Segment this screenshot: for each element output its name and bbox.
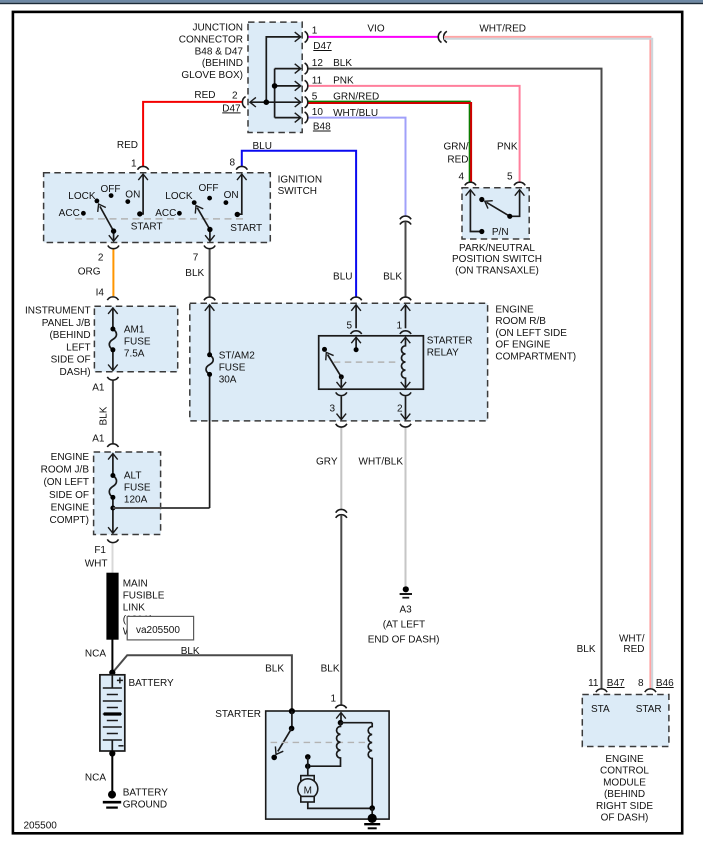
svg-text:120A: 120A <box>124 495 148 506</box>
wire pin 5 to contact <box>355 337 357 350</box>
wire VIO from junction pin 1 <box>308 36 439 38</box>
svg-text:FUSE: FUSE <box>124 483 151 494</box>
wire pivot 1 to pin 2 <box>113 231 115 241</box>
wire ignition ST1 contact line (pin 1) <box>140 174 143 214</box>
svg-text:2: 2 <box>397 404 403 415</box>
wire AM1 fuse feed <box>112 308 114 370</box>
main fusible link element <box>106 573 118 640</box>
svg-text:(BEHIND: (BEHIND <box>202 58 243 69</box>
svg-text:1: 1 <box>131 159 137 170</box>
svg-text:12: 12 <box>312 58 324 69</box>
wire ORG from ignition pin 2 to I4 <box>112 249 114 296</box>
node junction dot on bus1 <box>264 99 270 105</box>
instrument panel J/B box <box>94 306 177 372</box>
arrow down R/B exit pin2 column <box>401 414 411 420</box>
svg-text:OFF: OFF <box>101 184 121 195</box>
connector cup ignition pin 1 <box>138 166 149 169</box>
contact dot START 1 <box>137 211 142 216</box>
connector cup P/N pin 4 <box>465 182 476 185</box>
P/N pivot dot <box>507 214 512 219</box>
starter motor node dot (lower) <box>305 763 311 769</box>
svg-text:BLU: BLU <box>253 141 272 152</box>
connector cup pin 10 <box>305 112 308 123</box>
wire GRY from relay pin 3 <box>340 427 342 510</box>
svg-text:ORG: ORG <box>78 267 101 278</box>
pivot dot 2 <box>207 227 212 232</box>
svg-text:(ON TRANSAXLE): (ON TRANSAXLE) <box>455 266 539 277</box>
contact dot ACC 2 <box>177 211 182 216</box>
svg-text:PARK/NEUTRAL: PARK/NEUTRAL <box>459 243 535 254</box>
contact dot OFF 1 <box>109 193 114 198</box>
wire starter pin 1 entry <box>340 713 343 723</box>
svg-text:COMPT): COMPT) <box>50 515 89 526</box>
wire PNK from junction pin 11 to P/N switch pin 5 <box>308 86 520 182</box>
arrow on starter switch arm <box>272 746 283 756</box>
pivot dot 1 <box>111 228 116 233</box>
svg-text:PANEL J/B: PANEL J/B <box>42 318 91 329</box>
wire link ALT fuse to ST/AM2 fuse <box>113 507 210 509</box>
svg-text:BLK: BLK <box>333 58 352 69</box>
svg-text:WHT/RED: WHT/RED <box>479 24 526 35</box>
arrow down R/B exit pin3 column <box>337 414 347 420</box>
connector cup R/B entry BLK column <box>400 297 411 300</box>
contact dot OFF 2 <box>207 196 212 201</box>
wire junction bus 1 (pin2 to pin1) <box>266 37 299 102</box>
wire to starter ground <box>371 808 373 818</box>
arrow up starter pin 1 <box>336 713 346 719</box>
node ground bus dot <box>369 805 375 811</box>
svg-text:RIGHT SIDE: RIGHT SIDE <box>596 801 653 812</box>
relay switch arm <box>328 355 342 377</box>
battery ground symbol <box>103 791 121 808</box>
svg-text:NCA: NCA <box>85 773 106 784</box>
connector cup ignition pin 2 <box>108 246 119 249</box>
arrow down out of instrument J/B <box>108 365 118 371</box>
fuse ALT terminal dots <box>110 473 115 478</box>
node starter coils junction dot <box>338 720 344 726</box>
arrow up P/N pin 5 <box>515 190 525 196</box>
relay pivot dot <box>339 374 344 379</box>
arrow down out of engine room J/B <box>108 527 118 533</box>
park/neutral position switch box <box>462 188 529 239</box>
svg-text:INSTRUMENT: INSTRUMENT <box>25 306 91 317</box>
in-line connector on VIO/WHT-RED wire <box>438 31 447 42</box>
wire P/N pin 5 to pivot <box>511 190 520 217</box>
arrow up pin1 column <box>401 305 411 311</box>
svg-text:va205500: va205500 <box>136 625 180 636</box>
fuse ALT element <box>109 476 116 498</box>
svg-text:ENGINE: ENGINE <box>51 452 90 463</box>
svg-text:ROOM J/B: ROOM J/B <box>41 465 90 476</box>
svg-text:OFF: OFF <box>199 183 219 194</box>
svg-text:1: 1 <box>330 694 336 705</box>
wire relay pin5 column inside R/B <box>355 305 357 329</box>
arrow up into engine room J/B <box>108 454 118 460</box>
arrow down at pin 7 <box>205 235 215 241</box>
relay coil <box>401 337 405 388</box>
connector cup ignition pin 8 <box>236 166 247 169</box>
arrow up pin5 column <box>351 305 361 311</box>
svg-text:GLOVE BOX): GLOVE BOX) <box>181 70 243 81</box>
switch arm 2 <box>197 208 210 230</box>
svg-text:NCA: NCA <box>85 649 106 660</box>
in-line connector on GRY-BLK wire <box>336 509 347 517</box>
svg-text:7.5A: 7.5A <box>124 349 145 360</box>
connector cup F1 <box>107 539 118 542</box>
svg-text:7: 7 <box>193 253 199 264</box>
arrow on P/N switch arm <box>482 197 492 208</box>
wire relay pin 2 to R/B exit <box>405 396 407 419</box>
svg-text:MAIN: MAIN <box>123 579 148 590</box>
arrow to pin 2 (left) <box>250 97 256 107</box>
fuse AM1 terminal dots <box>110 327 115 332</box>
svg-text:LEFT: LEFT <box>66 342 90 353</box>
svg-text:VIO: VIO <box>367 24 384 35</box>
contact dot LOCK 1 <box>95 199 100 204</box>
connector cup R/B entry ST/AM2 column <box>204 297 215 300</box>
svg-text:(BEHIND: (BEHIND <box>49 330 90 341</box>
svg-text:ACC: ACC <box>155 208 176 219</box>
wire pivot 2 to pin 7 <box>209 230 211 241</box>
svg-text:(BEHIND: (BEHIND <box>604 789 645 800</box>
svg-text:BLK: BLK <box>265 664 284 675</box>
contact dot ON 1 <box>125 199 130 204</box>
svg-text:8: 8 <box>229 158 235 169</box>
battery minus sign <box>118 745 123 747</box>
motor M1 <box>298 776 318 802</box>
svg-text:JUNCTION: JUNCTION <box>192 23 243 34</box>
connector cup pin 5 <box>305 97 308 108</box>
wire BLK between A1 and A1 <box>112 380 114 443</box>
starter switch pivot dot <box>289 726 295 732</box>
wire BLK down to engine room R/B relay pin 1 <box>405 221 407 297</box>
svg-text:ALT: ALT <box>124 471 142 482</box>
fuse AM1 element <box>109 329 116 350</box>
svg-text:F1: F1 <box>94 545 106 556</box>
connector cup relay pin 2 <box>400 392 411 395</box>
svg-text:BLU: BLU <box>333 272 352 283</box>
svg-text:START: START <box>230 223 262 234</box>
svg-text:ENGINE: ENGINE <box>605 754 644 765</box>
wire contact to motor node <box>307 757 309 776</box>
svg-text:5: 5 <box>346 321 352 332</box>
svg-text:LOCK: LOCK <box>165 191 193 202</box>
svg-text:BLK: BLK <box>181 646 200 657</box>
arrow on relay switch arm <box>322 350 333 360</box>
svg-text:GROUND: GROUND <box>123 800 167 811</box>
svg-text:SIDE OF: SIDE OF <box>51 355 91 366</box>
wire WHT/BLU from junction pin 10 <box>308 118 406 216</box>
svg-text:A1: A1 <box>92 434 105 445</box>
svg-text:CONTROL: CONTROL <box>600 766 649 777</box>
wire WHT from F1 to main fusible link <box>112 543 114 574</box>
svg-text:OF ENGINE: OF ENGINE <box>495 340 550 351</box>
contact dot LOCK 2 <box>192 200 197 205</box>
svg-text:30A: 30A <box>219 375 237 386</box>
wire motor to ground bus <box>308 802 372 808</box>
svg-text:WHT/BLK: WHT/BLK <box>359 457 404 468</box>
svg-text:GRN/RED: GRN/RED <box>333 92 379 103</box>
svg-text:RED: RED <box>623 644 644 655</box>
wire NCA fusible link to battery <box>111 640 113 673</box>
arrow to pin 10 <box>295 113 301 123</box>
svg-text:WHT: WHT <box>85 559 108 570</box>
wire GRN/RED from junction pin 5 to P/N switch pin 4 <box>308 102 470 183</box>
wire NCA battery to ground <box>111 751 113 791</box>
svg-text:START: START <box>131 221 163 232</box>
svg-text:(ON LEFT: (ON LEFT <box>43 477 89 488</box>
svg-text:B46: B46 <box>656 678 674 689</box>
wire pin2-pin5 through line <box>251 101 300 103</box>
svg-text:STAR: STAR <box>636 704 662 715</box>
svg-text:11: 11 <box>312 75 323 86</box>
ground A3 symbol <box>400 586 412 598</box>
relay fixed contact dot <box>322 347 327 352</box>
connector cup ECM pin 11 <box>596 689 607 692</box>
svg-text:BLK: BLK <box>321 664 340 675</box>
in-line connector on WHT/BLU-BLK wire <box>400 216 411 224</box>
ignition switch box <box>44 173 271 243</box>
arrow on switch arm 2 <box>192 203 203 213</box>
svg-text:3: 3 <box>329 404 335 415</box>
connector cup pin 1 <box>305 31 308 42</box>
connector cup P/N pin 5 <box>514 182 525 185</box>
svg-text:D47: D47 <box>222 103 241 114</box>
svg-text:ENGINE: ENGINE <box>495 304 534 315</box>
fuse ST/AM2 element <box>206 355 213 375</box>
svg-text:SWITCH: SWITCH <box>278 186 317 197</box>
connector cup I4 <box>107 297 118 300</box>
svg-text:4: 4 <box>458 172 464 183</box>
relay mechanical link dashed line <box>334 361 398 363</box>
svg-text:(AT LEFT: (AT LEFT <box>383 620 425 631</box>
svg-text:MODULE: MODULE <box>603 777 646 788</box>
arrow on switch arm 1 <box>95 202 106 212</box>
switch arm 1 <box>100 206 114 231</box>
svg-text:B47: B47 <box>607 678 625 689</box>
svg-text:1: 1 <box>312 26 318 37</box>
svg-text:P/N: P/N <box>492 227 509 238</box>
svg-text:PNK: PNK <box>333 75 354 86</box>
svg-text:GRY: GRY <box>316 457 338 468</box>
svg-text:B48 & D47: B48 & D47 <box>195 46 244 57</box>
arrow up into instrument J/B <box>108 308 118 314</box>
svg-text:PNK: PNK <box>497 142 518 153</box>
wire P/N pin 4 to contact <box>470 190 479 232</box>
svg-text:BLK: BLK <box>185 268 204 279</box>
wire battery feed to starter switch pivot <box>291 711 293 728</box>
svg-text:WHT/: WHT/ <box>619 634 645 645</box>
svg-text:ACC: ACC <box>59 208 80 219</box>
starter mechanical link dashed line <box>271 741 367 743</box>
node battery positive dot <box>109 670 115 676</box>
svg-text:RED: RED <box>194 90 215 101</box>
connector cup A1 (below instrument J/B) <box>107 377 118 380</box>
engine room J/B box <box>94 452 161 535</box>
node battery negative dot <box>109 750 115 756</box>
node battery feed junction dot on starter box <box>289 708 295 714</box>
arrow down at relay pin 3 <box>337 382 347 388</box>
arrow up P/N pin 4 <box>466 190 476 196</box>
svg-text:1: 1 <box>396 321 402 332</box>
fuse ST/AM2 terminal dots <box>207 352 212 357</box>
svg-text:FUSE: FUSE <box>124 337 151 348</box>
wire junction bus 2 (pins 12,11,10) <box>275 69 300 118</box>
svg-text:2: 2 <box>232 90 238 101</box>
svg-text:FUSIBLE: FUSIBLE <box>123 591 165 602</box>
connector cup pin 11 <box>305 80 308 91</box>
arrow to pin 11 <box>295 81 301 91</box>
wire ALT fuse feed <box>112 454 114 533</box>
battery <box>100 675 125 751</box>
svg-text:LOCK: LOCK <box>68 191 96 202</box>
svg-text:BLK: BLK <box>577 644 596 655</box>
arrow up pin 5 inside relay <box>351 337 361 343</box>
svg-text:I4: I4 <box>96 288 105 299</box>
top window bar <box>0 0 703 3</box>
arrow up at pin 8 <box>237 174 247 180</box>
arrow up pin 1 inside relay <box>401 337 411 343</box>
starter ground symbol <box>364 814 380 828</box>
svg-text:GRN/: GRN/ <box>444 142 469 153</box>
svg-text:END OF DASH): END OF DASH) <box>368 635 440 646</box>
svg-text:ON: ON <box>125 189 140 200</box>
starter contact node dot (upper) <box>305 754 311 760</box>
arrow up ST/AM2 entry <box>205 305 215 311</box>
svg-text:ENGINE: ENGINE <box>51 502 90 513</box>
connector cup ignition pin 7 <box>204 246 215 249</box>
svg-text:A3: A3 <box>399 605 412 616</box>
arrow down at relay pin 2 <box>401 382 411 388</box>
starter relay box <box>319 336 424 389</box>
arrow up at pin 1 <box>138 174 148 180</box>
P/N switch arm <box>486 202 509 216</box>
battery plus sign <box>117 677 123 683</box>
node dot ALT/ST-AM2 tap <box>110 506 115 511</box>
wire BLU from ignition pin 8 to relay pin 5 column <box>242 151 356 298</box>
wire relay pin1 column inside R/B <box>405 305 407 329</box>
connector cup A1 (engine room J/B top) <box>107 444 118 447</box>
P/N contact dot <box>479 229 484 234</box>
svg-text:D47: D47 <box>313 41 332 52</box>
connector cup pin 2 (left side) <box>242 97 245 108</box>
node junction dot on bus2 <box>272 83 278 89</box>
connector cup relay pin 1 <box>400 331 411 334</box>
relay pin5 contact dot <box>354 347 359 352</box>
svg-text:11: 11 <box>588 678 599 689</box>
mechanical link dashed line <box>75 218 243 220</box>
svg-text:BATTERY: BATTERY <box>129 678 175 689</box>
watermark box va205500 <box>127 616 193 640</box>
svg-text:SIDE OF: SIDE OF <box>49 490 89 501</box>
wire RED from junction pin 2 to ignition switch pin 1 <box>143 102 243 166</box>
svg-text:IGNITION: IGNITION <box>278 175 322 186</box>
wire WHT/RED to ECM pin 8 <box>444 37 650 689</box>
svg-text:10: 10 <box>312 107 324 118</box>
svg-text:ON: ON <box>224 190 239 201</box>
svg-text:BLK: BLK <box>383 272 402 283</box>
starter hold-in coil <box>368 723 372 808</box>
wire BLK battery positive to starter <box>112 655 292 710</box>
wire relay pivot to pin 3 <box>340 377 342 388</box>
wire relay pin 3 to R/B exit <box>340 396 342 419</box>
svg-text:CONNECTOR: CONNECTOR <box>179 34 243 45</box>
connector cup relay pin 3 <box>336 392 347 395</box>
wire BLK from junction pin 12 to ECM pin 11 <box>308 69 602 689</box>
connector cup R/B entry BLU column <box>351 297 362 300</box>
svg-text:STARTER: STARTER <box>215 709 261 720</box>
svg-text:(ON LEFT SIDE: (ON LEFT SIDE <box>495 328 567 339</box>
svg-text:BLK: BLK <box>99 406 110 425</box>
contact dot ACC 1 <box>81 211 86 216</box>
svg-text:5: 5 <box>312 92 318 103</box>
svg-text:COMPARTMENT): COMPARTMENT) <box>495 352 576 363</box>
svg-text:205500: 205500 <box>24 821 58 832</box>
svg-text:RELAY: RELAY <box>427 348 459 359</box>
wire WHT stripe of WHT/RED <box>444 39 652 689</box>
junction connector J/C box (B48 & D47) <box>248 22 302 132</box>
svg-text:RED: RED <box>447 155 468 166</box>
svg-text:POSITION SWITCH: POSITION SWITCH <box>452 254 542 265</box>
connector cup starter pin 1 <box>335 705 346 708</box>
connector cup R/B exit pin3 column <box>336 424 347 427</box>
svg-text:FUSE: FUSE <box>219 363 246 374</box>
starter pull-in coil <box>311 723 341 767</box>
svg-text:M: M <box>304 786 312 797</box>
starter switch arm <box>278 728 292 751</box>
svg-text:BATTERY: BATTERY <box>123 788 169 799</box>
svg-text:STA: STA <box>591 704 610 715</box>
svg-text:WHT/BLU: WHT/BLU <box>333 108 378 119</box>
engine control module box <box>582 695 669 747</box>
connector cup R/B exit pin2 column <box>400 424 411 427</box>
wire BLK down to starter pin 1 <box>340 515 342 705</box>
wire ignition ST2 contact line (pin 8) <box>238 174 242 214</box>
svg-text:ROOM R/B: ROOM R/B <box>495 316 546 327</box>
wire ST/AM2 fuse column <box>209 305 211 508</box>
connector cup pin 12 <box>305 63 308 74</box>
contact dot ON 2 <box>224 200 229 205</box>
wire to hold-in coil <box>341 722 373 724</box>
arrow to pin 12 <box>295 64 301 74</box>
engine room R/B box <box>190 303 488 421</box>
svg-text:8: 8 <box>638 678 644 689</box>
wire BLK from ignition pin 7 down to engine room R/B <box>209 249 211 296</box>
svg-text:A1: A1 <box>92 383 105 394</box>
svg-text:STARTER: STARTER <box>427 336 473 347</box>
svg-text:AM1: AM1 <box>124 325 145 336</box>
svg-text:OF DASH): OF DASH) <box>601 813 649 824</box>
starter switch contact dot <box>271 755 277 761</box>
arrow down at pin 2 <box>109 235 119 241</box>
svg-text:ST/AM2: ST/AM2 <box>219 351 256 362</box>
svg-text:LINK: LINK <box>123 603 146 614</box>
svg-text:5: 5 <box>507 172 513 183</box>
arrow to pin 5 <box>295 97 301 107</box>
connector cup ECM pin 8 <box>645 689 656 692</box>
svg-text:B48: B48 <box>313 122 331 133</box>
svg-text:RED: RED <box>117 140 138 151</box>
connector cup relay pin 5 <box>351 331 362 334</box>
starter box <box>266 711 389 819</box>
contact dot START 2 <box>235 212 240 217</box>
svg-text:2: 2 <box>98 253 104 264</box>
arrow to pin 1 <box>295 32 301 42</box>
wire WHT/BLK from relay pin 2 to A3 ground <box>405 428 407 586</box>
P/N fixed contact dot <box>479 197 484 202</box>
svg-text:DASH): DASH) <box>59 367 90 378</box>
